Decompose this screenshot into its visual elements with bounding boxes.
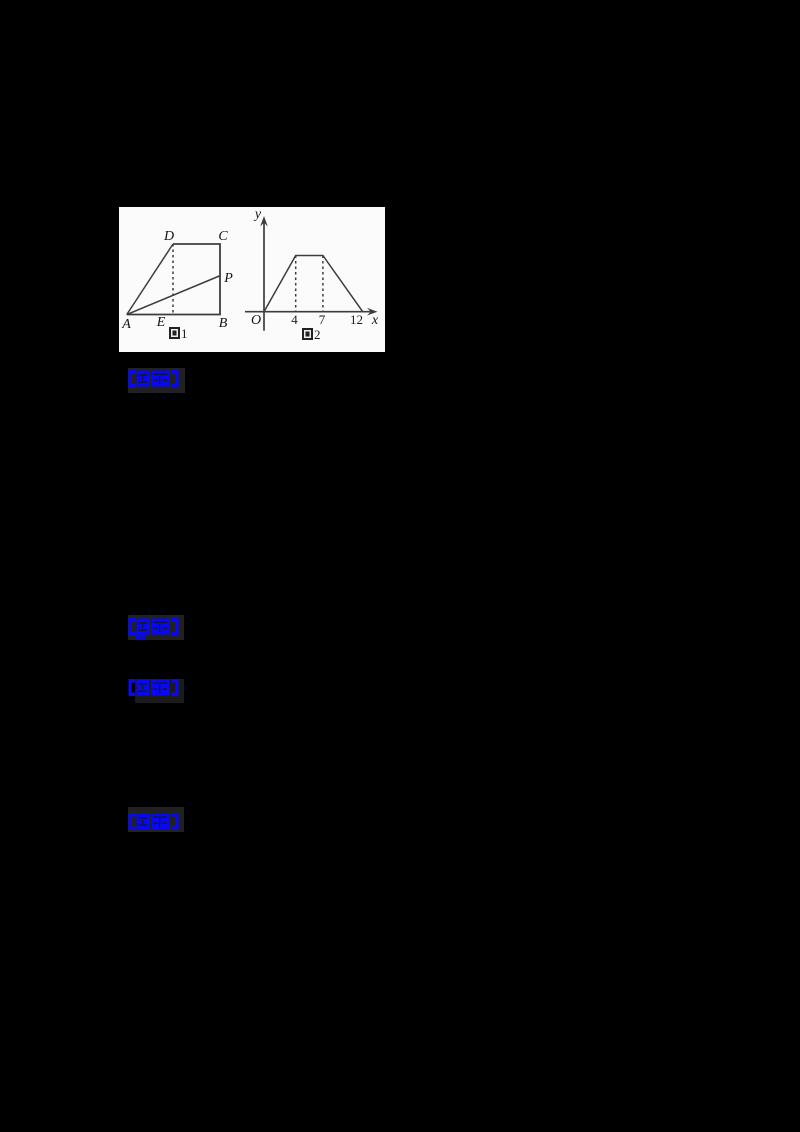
svg-text:D: D: [163, 229, 174, 244]
svg-text:x: x: [371, 313, 379, 328]
svg-text:A: A: [121, 317, 131, 332]
svg-text:B: B: [219, 316, 228, 331]
svg-text:E: E: [156, 315, 166, 330]
svg-text:O: O: [251, 313, 261, 328]
svg-text:7: 7: [319, 312, 326, 327]
svg-text:2: 2: [314, 327, 321, 342]
svg-text:y: y: [253, 207, 262, 222]
svg-text:1: 1: [181, 326, 188, 341]
svg-text:C: C: [218, 229, 228, 244]
svg-text:4: 4: [291, 312, 298, 327]
svg-text:P: P: [223, 271, 233, 286]
svg-text:12: 12: [350, 312, 363, 327]
